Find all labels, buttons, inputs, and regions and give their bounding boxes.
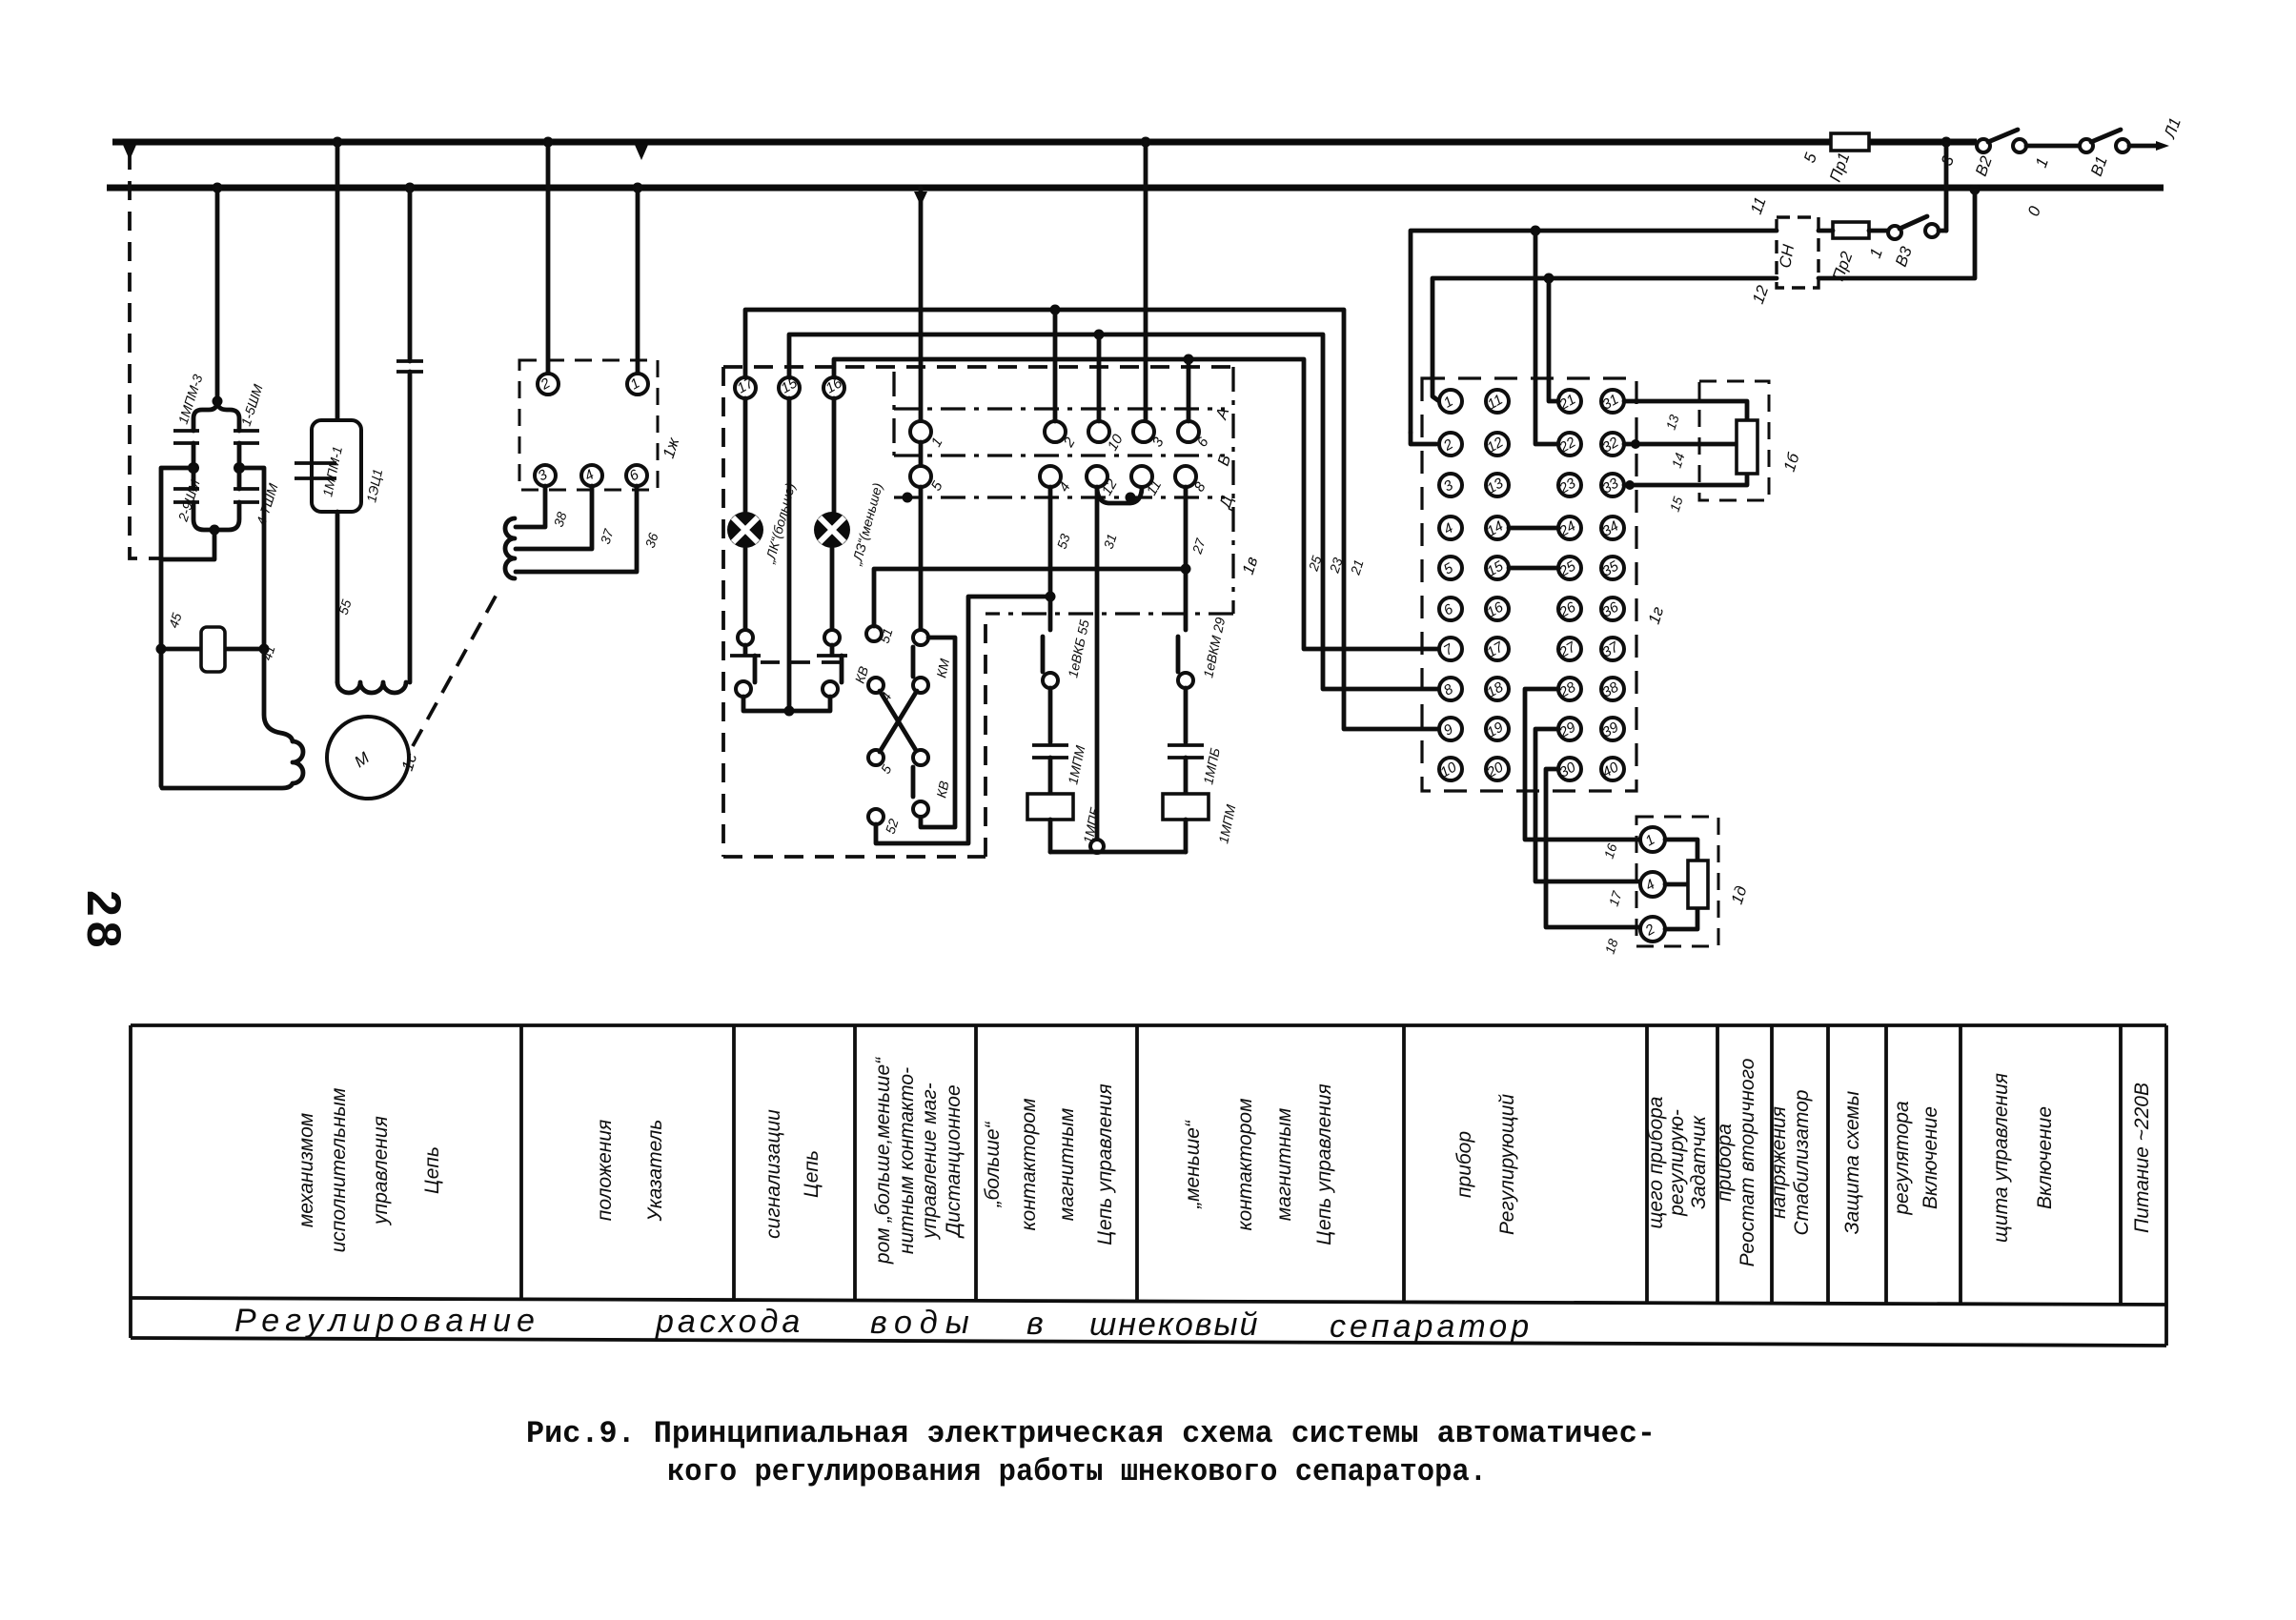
- svg-text:КМ: КМ: [933, 657, 952, 678]
- wire 1д wiper: [1665, 882, 1687, 887]
- svg-text:1еВКМ 29: 1еВКМ 29: [1200, 616, 1228, 678]
- svg-text:1МПБ: 1МПБ: [1200, 746, 1223, 785]
- svg-text:напряжения: напряжения: [1768, 1106, 1790, 1219]
- svg-text:управление маг-: управление маг-: [919, 1083, 941, 1240]
- svg-text:щего прибора: щего прибора: [1645, 1097, 1667, 1229]
- terminal 2: [538, 374, 559, 395]
- contact КВ: [913, 750, 952, 817]
- contact 1еВКБ: [1043, 618, 1092, 688]
- svg-text:Рис.9. Принципиальная электрич: Рис.9. Принципиальная электрическая схем…: [526, 1416, 1656, 1451]
- interlock contact 1МПМ: [1032, 688, 1088, 794]
- terminal 3 row А: [1133, 421, 1154, 442]
- svg-text:3: 3: [1149, 435, 1168, 450]
- row line А: [894, 407, 1225, 410]
- svg-text:исполнительным: исполнительным: [328, 1088, 350, 1253]
- wire 3 from bus1: [1144, 142, 1148, 420]
- svg-text:положения: положения: [594, 1120, 616, 1221]
- svg-text:Регулирующий: Регулирующий: [1496, 1094, 1518, 1235]
- table column dividers: [521, 1025, 2121, 1305]
- contact 1еВКМ: [1178, 616, 1228, 688]
- terminal 1 row А: [910, 421, 931, 442]
- contact КМ: [913, 630, 952, 693]
- svg-text:37: 37: [598, 526, 617, 546]
- svg-text:Указатель: Указатель: [644, 1120, 666, 1223]
- terminal block 1г column 1 (terminals 1-10): [1437, 390, 1462, 781]
- svg-text:„меньше“: „меньше“: [1182, 1120, 1204, 1209]
- wire 55 with series winding: [335, 512, 406, 693]
- jumper 15-25: [1509, 566, 1558, 571]
- column: цепь управления исполнительным механизмом: [295, 1088, 443, 1253]
- capacitor branch: [396, 188, 423, 682]
- button contact under ЛЗ: [817, 630, 847, 697]
- svg-text:Питание ~220В: Питание ~220В: [2131, 1083, 2153, 1233]
- sensor box 1д: [1636, 817, 1751, 946]
- svg-text:Цепь управления: Цепь управления: [1313, 1083, 1335, 1245]
- column: регулирующий прибор: [1453, 1094, 1518, 1235]
- column: цепь сигнализации: [762, 1109, 823, 1239]
- wire 17: [1535, 729, 1639, 881]
- interlock contact 1МПБ: [1168, 688, 1223, 794]
- svg-text:„ЛК“(больше): „ЛК“(больше): [762, 481, 798, 566]
- wire to terminal 22: [1535, 231, 1557, 444]
- svg-text:сепаратор: сепаратор: [1330, 1308, 1533, 1345]
- svg-text:Цепь: Цепь: [421, 1146, 443, 1194]
- terminal 10 row А: [1088, 421, 1109, 442]
- terminal 1д-1: [1640, 827, 1665, 852]
- box 1в border (dash-dot): [894, 367, 1233, 614]
- svg-text:1МПМ: 1МПМ: [1065, 744, 1087, 786]
- svg-text:14: 14: [1669, 451, 1688, 470]
- wire 25 (lamp 16 to terminal 7): [834, 359, 1437, 649]
- svg-text:Л1: Л1: [2161, 115, 2184, 141]
- node on row Д x1186: [1126, 493, 1136, 503]
- svg-text:регулирую-: регулирую-: [1666, 1109, 1688, 1217]
- svg-text:Защита схемы: Защита схемы: [1841, 1090, 1863, 1234]
- svg-text:щита управления: щита управления: [1990, 1073, 2012, 1243]
- svg-text:„больше“: „больше“: [982, 1121, 1004, 1207]
- node wire25/terminal6: [1184, 354, 1194, 365]
- motor М: [327, 717, 421, 799]
- svg-text:1в: 1в: [1239, 555, 1262, 577]
- fuse Пр1: [1800, 133, 1869, 184]
- wire 1д top: [1665, 840, 1697, 860]
- column: реостат вторичного прибора: [1714, 1058, 1758, 1266]
- svg-text:расхода: расхода: [655, 1304, 803, 1340]
- wire 16: [1525, 689, 1639, 840]
- terminal 5 row Б: [910, 466, 931, 487]
- svg-text:контактором: контактором: [1234, 1099, 1256, 1231]
- svg-text:0: 0: [2024, 203, 2044, 218]
- lamp ЛК (больше): [727, 481, 798, 566]
- svg-text:Реостат вторичного: Реостат вторичного: [1737, 1058, 1758, 1266]
- wire 53 branch: [1046, 487, 1073, 630]
- terminal 1: [627, 374, 648, 395]
- svg-text:51: 51: [877, 626, 896, 645]
- arrow marker on bus1 mid: [635, 145, 648, 160]
- svg-text:Задатчик: Задатчик: [1688, 1115, 1710, 1209]
- svg-text:1МПМ-3: 1МПМ-3: [175, 373, 206, 426]
- svg-text:5: 5: [878, 762, 895, 777]
- button contact under ЛК: [730, 630, 761, 697]
- wire СН-12 left run: [1432, 278, 1777, 401]
- wire 21 (lamp 17 to terminal 9): [745, 310, 1437, 729]
- column: дистанционное управление: [872, 1057, 965, 1265]
- svg-text:13: 13: [1663, 413, 1682, 432]
- wire В3 to bus1: [1944, 144, 1949, 231]
- node wire23/terminal10: [1094, 330, 1105, 340]
- wire to terminal 2: [1411, 433, 1436, 444]
- arrow marker on bus1 left: [123, 145, 136, 160]
- wire 15: [1624, 474, 1747, 485]
- node on row Д x952: [903, 493, 913, 503]
- contact 1МПМ-3: [173, 431, 199, 443]
- svg-text:магнитным: магнитным: [1273, 1108, 1295, 1222]
- row line Д: [894, 496, 1225, 498]
- contact 1-5ШМ: [234, 431, 259, 443]
- svg-text:5: 5: [1800, 150, 1820, 165]
- node on bus1 x1202: [1141, 137, 1151, 148]
- mechanical link КВ (dashed): [761, 660, 844, 664]
- svg-text:магнитным: магнитным: [1056, 1108, 1078, 1222]
- svg-text:1: 1: [928, 435, 946, 450]
- relay Л1: [156, 611, 278, 672]
- svg-text:36: 36: [642, 531, 661, 550]
- svg-text:52: 52: [883, 817, 902, 836]
- column: защита схемы: [1841, 1090, 1863, 1234]
- column: включение регулятора: [1891, 1101, 1941, 1215]
- svg-text:55: 55: [335, 597, 355, 617]
- node on bus2 x669: [633, 183, 643, 193]
- wire to lamp ЛК: [743, 398, 748, 512]
- switch В3: [1866, 216, 1946, 269]
- terminal 2 row А: [1045, 421, 1066, 442]
- svg-text:1: 1: [2032, 155, 2052, 170]
- wire 27 branch: [1181, 487, 1209, 630]
- node on bus1 x354: [333, 137, 343, 148]
- wire dashed left drop: [130, 151, 160, 558]
- svg-text:1еВКБ 55: 1еВКБ 55: [1065, 618, 1092, 679]
- svg-text:механизмом: механизмом: [295, 1113, 317, 1227]
- svg-text:Включение: Включение: [1920, 1106, 1941, 1209]
- table frame: [131, 1025, 2166, 1346]
- svg-text:кого регулирования работы шнек: кого регулирования работы шнекового сепа…: [667, 1454, 1487, 1489]
- wire to lamp ЛЗ: [832, 398, 837, 512]
- terminal 4 row Б: [1040, 466, 1061, 487]
- relay coil 1МПМ: [1163, 794, 1239, 852]
- svg-text:16: 16: [1601, 841, 1620, 861]
- lamp terminal 15: [779, 377, 800, 398]
- contact 2-9ШМ: [192, 468, 196, 489]
- wire 1д bottom: [1665, 909, 1697, 929]
- svg-text:4: 4: [1056, 479, 1074, 495]
- stem to bottom tee: [161, 530, 214, 559]
- resistor 1д: [1688, 861, 1708, 908]
- terminal block 1г column 2 (terminals 11-20): [1483, 390, 1509, 781]
- terminal 6: [626, 465, 647, 486]
- box 1ж (dashed): [519, 360, 658, 490]
- wire lamp ЛК to button: [743, 548, 748, 629]
- column: цепь управления контактором меньше: [1182, 1083, 1335, 1245]
- svg-text:прибор: прибор: [1453, 1131, 1475, 1198]
- wire 13: [1624, 401, 1747, 420]
- svg-text:В3: В3: [1892, 244, 1916, 270]
- wire 38: [516, 486, 545, 527]
- terminal 1д-4: [1640, 872, 1665, 897]
- svg-text:1-5ШМ: 1-5ШМ: [238, 382, 266, 428]
- column: цепь управления контактором больше: [982, 1083, 1116, 1245]
- terminal 3: [535, 465, 556, 486]
- contact 4-7ШМ: [237, 468, 242, 489]
- wire bus 0 (second): [107, 185, 2164, 192]
- node on bus1 x2042: [1941, 137, 1952, 148]
- wire bus Л1 (top): [112, 139, 1977, 146]
- lamp return wires: [743, 697, 830, 711]
- svg-text:В2: В2: [1972, 153, 1996, 179]
- svg-text:сигнализации: сигнализации: [762, 1109, 784, 1239]
- svg-text:18: 18: [1602, 937, 1621, 956]
- relay coil 1МПБ: [1027, 794, 1103, 852]
- svg-text:15: 15: [1667, 495, 1686, 514]
- terminal 4: [581, 465, 602, 486]
- svg-text:Цепь управления: Цепь управления: [1094, 1083, 1116, 1245]
- svg-text:ром „больше,меньше“: ром „больше,меньше“: [872, 1057, 894, 1265]
- jumper 14-24: [1509, 526, 1558, 531]
- wire 37: [516, 486, 592, 549]
- svg-text:12: 12: [1749, 283, 1773, 307]
- node on wire 12: [1544, 273, 1554, 284]
- fuse Пр2: [1829, 222, 1869, 283]
- row line Б: [894, 454, 1225, 456]
- svg-text:Регулирование: Регулирование: [234, 1303, 540, 1339]
- svg-text:45: 45: [166, 611, 185, 630]
- sensor winding: [505, 518, 515, 578]
- svg-text:1д: 1д: [1728, 883, 1751, 906]
- wire СН-12 to bus2: [1819, 192, 1975, 278]
- column: стабилизатор напряжения: [1768, 1090, 1813, 1236]
- terminal 11 row Б: [1131, 466, 1152, 487]
- drop to terminal 10: [1097, 334, 1102, 421]
- svg-text:5: 5: [928, 478, 946, 494]
- stabilizer СН: [1747, 194, 1819, 306]
- node right: [234, 462, 245, 474]
- node on wire 11: [1531, 226, 1541, 236]
- svg-text:31: 31: [1101, 532, 1120, 551]
- node left: [188, 462, 199, 474]
- wire 18: [1546, 769, 1639, 927]
- svg-text:Дистанционное: Дистанционное: [943, 1084, 965, 1238]
- wire stem from bus2 to contact group: [215, 188, 220, 404]
- bypass wire left: [161, 468, 193, 786]
- lamp terminal 16: [823, 377, 844, 398]
- svg-text:1б: 1б: [1780, 450, 1803, 474]
- wire bus1 to 1ж terminal 2: [546, 142, 551, 374]
- terminal block 1г column 4 (terminals 31-40): [1599, 390, 1624, 781]
- svg-text:27: 27: [1189, 536, 1209, 557]
- wire 52: [868, 597, 1048, 843]
- wire lamp ЛЗ to button: [830, 548, 835, 629]
- svg-text:Пр1: Пр1: [1826, 151, 1854, 185]
- terminal 8 row Б: [1175, 466, 1196, 487]
- rheostat box 1б: [1699, 381, 1803, 500]
- wire 14: [1624, 442, 1736, 447]
- svg-text:регулятора: регулятора: [1891, 1101, 1913, 1215]
- wire 51: [866, 569, 1184, 645]
- switch В2: [1938, 130, 2080, 178]
- wire 5 to КМ: [919, 487, 924, 630]
- column: включение щита управления: [1990, 1073, 2056, 1243]
- svg-text:1г: 1г: [1645, 604, 1668, 626]
- node wire21/terminal2: [1050, 305, 1061, 315]
- svg-text:контактором: контактором: [1018, 1099, 1040, 1231]
- svg-text:В1: В1: [2087, 153, 2111, 178]
- jumper 12-11: [1097, 489, 1142, 503]
- bottom row text: [234, 1303, 1533, 1345]
- terminal block 1г border: [1422, 378, 1636, 791]
- svg-text:11: 11: [1747, 194, 1770, 216]
- contact box 1МПМ-1: [295, 142, 385, 512]
- svg-text:Включение: Включение: [2034, 1106, 2056, 1209]
- mechanical link (dashed diagonal): [413, 593, 498, 746]
- wire 23 (lamp 15 to terminal 8): [789, 334, 1437, 689]
- terminal 12 row Б: [1087, 466, 1107, 487]
- svg-text:в: в: [1026, 1306, 1044, 1342]
- node on bus2 x228: [213, 183, 223, 193]
- drop to terminal 6: [1187, 359, 1191, 421]
- contact group of executive mechanism (parallel contacts): [161, 373, 281, 786]
- node bottom: [210, 525, 220, 536]
- lamp terminal 17: [735, 377, 756, 398]
- terminal block 1г column 3 (terminals 21-30): [1555, 390, 1581, 781]
- svg-text:Стабилизатор: Стабилизатор: [1791, 1090, 1813, 1236]
- bottom return wire: [1050, 850, 1186, 855]
- node on bus2 x2072: [1970, 185, 1981, 195]
- bracket wire: [921, 638, 955, 827]
- wire from terminal 15 down: [787, 398, 792, 711]
- terminal 1д-2: [1640, 917, 1665, 942]
- node on bus1 x575: [543, 137, 554, 148]
- wire 36: [516, 486, 637, 572]
- terminal 6 row А: [1178, 421, 1199, 442]
- wire 31: [1090, 487, 1120, 853]
- wire 5 from bus2: [919, 188, 924, 421]
- svg-text:2: 2: [1060, 435, 1079, 451]
- switch В1: [2032, 115, 2184, 178]
- svg-text:8: 8: [1191, 479, 1209, 495]
- svg-text:6: 6: [1194, 435, 1212, 450]
- svg-text:1ЭЦ1: 1ЭЦ1: [363, 468, 385, 504]
- svg-text:17: 17: [1606, 888, 1625, 908]
- cross wires: [868, 678, 917, 777]
- svg-text:28: 28: [77, 890, 131, 953]
- svg-text:воды: воды: [870, 1305, 977, 1341]
- svg-text:управления: управления: [370, 1116, 392, 1226]
- column: питание 220В: [2131, 1083, 2153, 1233]
- svg-text:нитным контакто-: нитным контакто-: [896, 1067, 918, 1254]
- wire to terminal 21: [1549, 278, 1557, 401]
- wire bus2 to 1ж terminal 1: [636, 188, 640, 374]
- bypass wire right: [239, 468, 264, 649]
- svg-text:1МПМ: 1МПМ: [1215, 803, 1238, 845]
- wire СН-11 left run: [1411, 231, 1777, 433]
- wire with winding to motor loop: [162, 649, 303, 788]
- svg-text:шнековый: шнековый: [1089, 1306, 1259, 1343]
- column: указатель положения: [594, 1120, 666, 1223]
- signal box border (dashed): [723, 367, 1233, 857]
- svg-text:прибора: прибора: [1714, 1124, 1736, 1202]
- resistor 1б: [1737, 420, 1758, 474]
- svg-text:„ЛЗ“(меньше): „ЛЗ“(меньше): [848, 481, 885, 568]
- svg-text:КВ: КВ: [933, 780, 951, 800]
- svg-text:Б: Б: [1214, 453, 1234, 468]
- svg-text:1ж: 1ж: [660, 435, 683, 460]
- drop to terminal 2: [1053, 310, 1058, 421]
- svg-text:21: 21: [1347, 557, 1366, 577]
- wire СН-11 to Пр2: [1819, 229, 1833, 233]
- column: задатчик регулирующего прибора: [1645, 1097, 1710, 1229]
- lamp ЛЗ (меньше): [814, 481, 885, 568]
- svg-text:53: 53: [1054, 532, 1073, 551]
- svg-text:А: А: [1211, 406, 1232, 423]
- svg-text:38: 38: [551, 510, 570, 529]
- svg-text:1: 1: [1866, 246, 1886, 260]
- svg-text:Цепь: Цепь: [801, 1150, 823, 1198]
- node on bus2 x430: [405, 183, 416, 193]
